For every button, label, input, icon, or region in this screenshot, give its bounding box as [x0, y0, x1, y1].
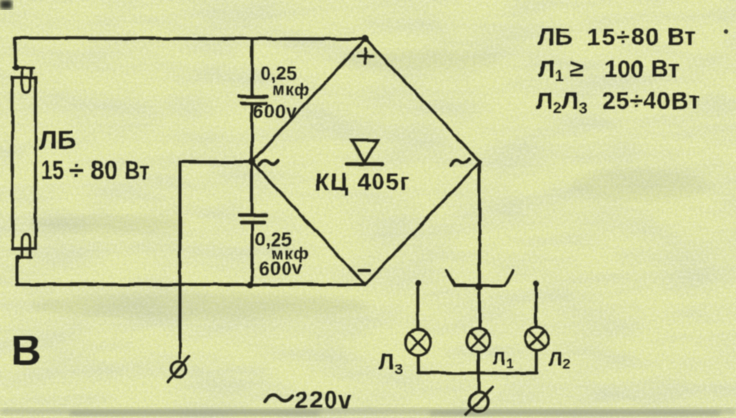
diode symbol inside bridge: [352, 141, 378, 163]
capacitor C2 plates 0.25mkf 600v: [251, 162, 254, 216]
svg-text:мкф: мкф: [272, 80, 310, 99]
svg-text:Вт: Вт: [651, 56, 680, 83]
lamp LB tube envelope: [13, 78, 36, 249]
lamp holder bracket: [446, 271, 513, 286]
svg-text:≥: ≥: [570, 55, 584, 83]
wire C1 to node: [251, 104, 254, 163]
node bracket junction: [475, 283, 483, 291]
plus terminal mark: [358, 49, 373, 64]
wire C2 to bottom rail: [251, 223, 254, 285]
lamp L2 right: [525, 327, 548, 350]
wire phase drop: [179, 162, 182, 359]
minus terminal mark: [359, 269, 370, 272]
wire horizontal phase tap: [180, 161, 252, 164]
svg-text:В: В: [11, 327, 41, 374]
svg-text:15: 15: [41, 155, 64, 185]
AC tilde right: [451, 159, 470, 166]
capacitor C1 plates 0.25mkf 600v: [239, 95, 267, 98]
wire lamp bottom to rail: [16, 257, 19, 284]
svg-text:220v: 220v: [295, 387, 352, 414]
wire to phase bottom: [477, 373, 480, 393]
lamp LB top cap: [14, 68, 34, 78]
lamp L3 left: [405, 330, 431, 356]
svg-text:÷: ÷: [69, 155, 83, 185]
svg-text:25÷40Вт: 25÷40Вт: [602, 88, 701, 115]
svg-text:600v: 600v: [253, 102, 297, 123]
node top corner junction: [361, 35, 368, 42]
stray dot: [724, 29, 728, 33]
wire left drop to lamp: [14, 38, 18, 66]
wire top rail to C1: [251, 39, 254, 96]
lamp LB bottom filament: [22, 235, 30, 249]
tilde of ~220v: [265, 395, 293, 401]
svg-text:15÷80: 15÷80: [587, 24, 661, 51]
svg-text:КЦ 405г: КЦ 405г: [315, 169, 411, 196]
svg-text:Вт: Вт: [125, 157, 149, 185]
svg-text:80: 80: [90, 155, 118, 185]
bridge rectifier KC405g diamond: [252, 39, 480, 285]
phase symbol bottom: [469, 393, 488, 412]
svg-text:Л: Л: [493, 349, 506, 369]
node AC left junction: [248, 158, 256, 166]
wire bottom rail: [16, 283, 365, 286]
wire top rail: [15, 38, 365, 39]
wire right lamp branch: [533, 281, 539, 287]
svg-text:1: 1: [506, 356, 513, 371]
svg-text:100: 100: [604, 56, 644, 83]
lamp LB top filament: [22, 78, 30, 93]
node bottom rail junction: [247, 281, 254, 288]
node junction at lamp top: [14, 65, 20, 71]
phase symbol left: [171, 362, 186, 377]
svg-text:ЛБ: ЛБ: [39, 125, 76, 155]
svg-text:600v: 600v: [259, 259, 303, 280]
wire left lamp branch: [415, 280, 421, 286]
lamp LB bottom cap: [17, 249, 31, 258]
lamp L1 middle: [467, 329, 491, 353]
AC tilde left: [260, 161, 279, 166]
svg-text:Вт: Вт: [667, 24, 696, 51]
wire bridge right corner down: [478, 162, 481, 328]
wire lamp bottom rail: [418, 371, 537, 374]
node small dot bottom cap: [15, 254, 20, 259]
svg-text:ЛБ: ЛБ: [538, 24, 572, 51]
